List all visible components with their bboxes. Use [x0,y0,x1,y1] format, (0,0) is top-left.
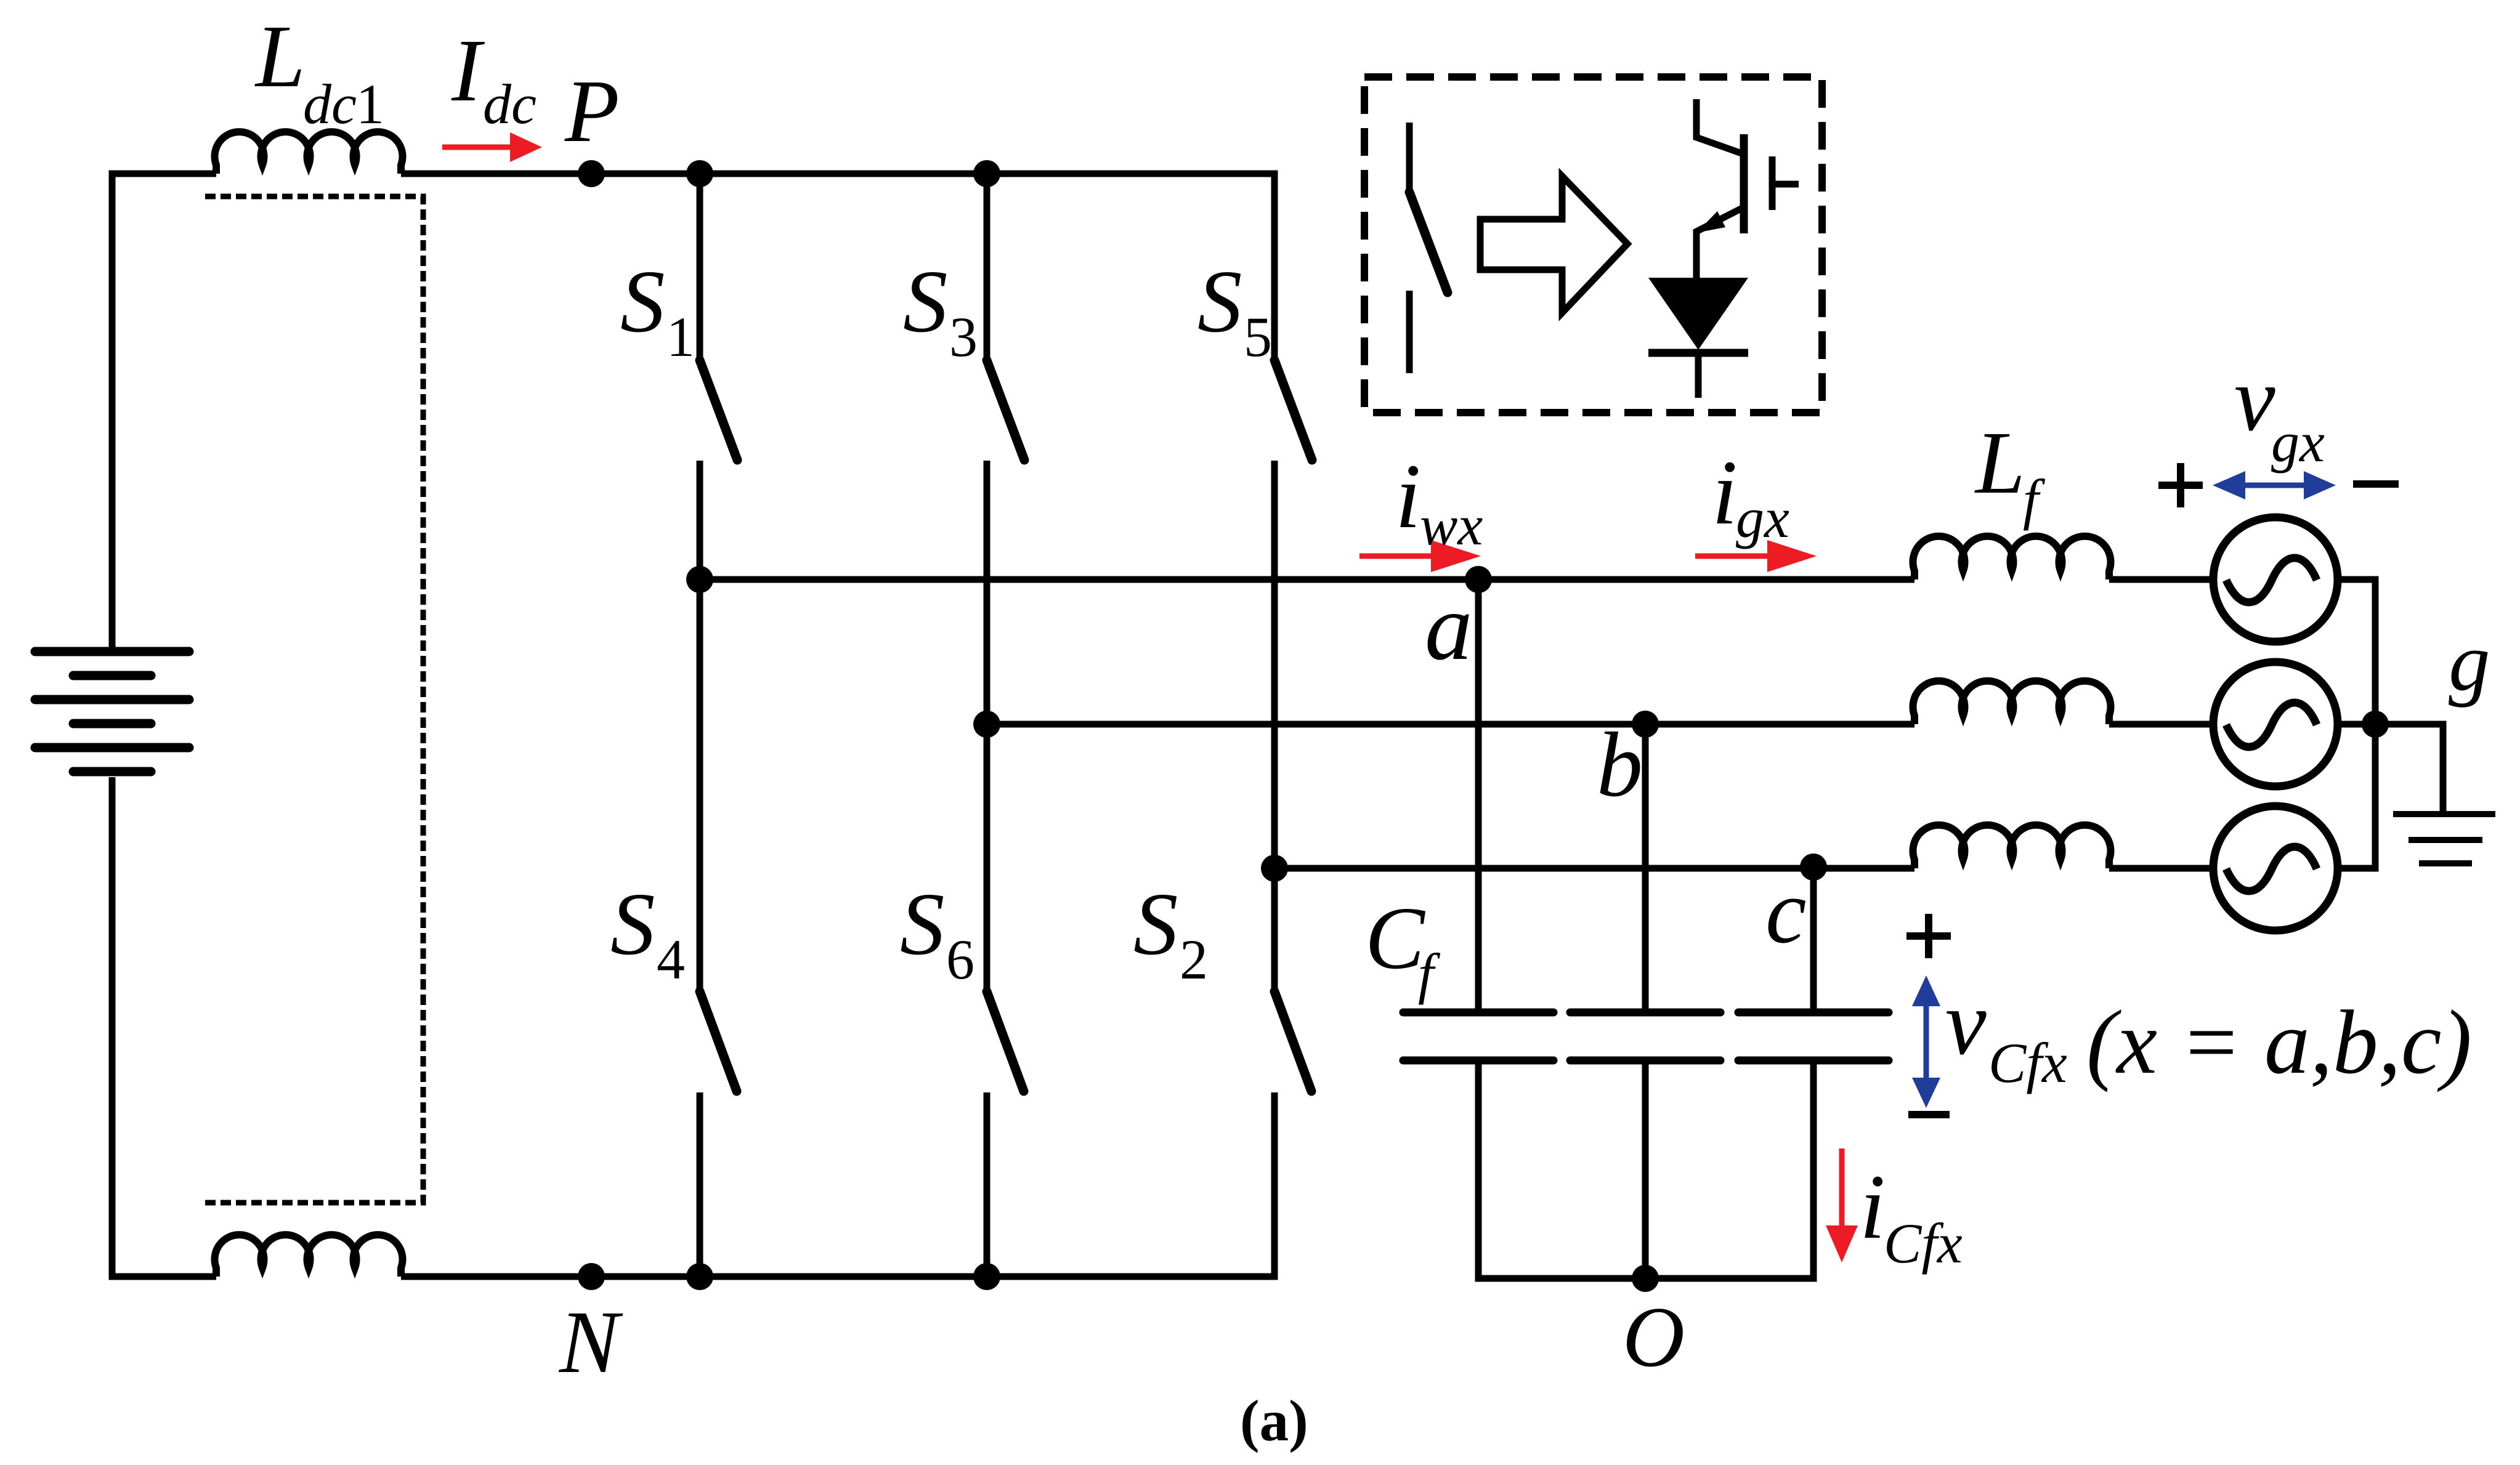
svg-text:S: S [1197,252,1242,351]
svg-text:gx: gx [2271,411,2325,474]
svg-text:Cfx: Cfx [1884,1212,1963,1275]
svg-text:3: 3 [949,305,978,368]
svg-text:c: c [1765,860,1807,963]
svg-text:C: C [1365,889,1426,988]
svg-text:S: S [620,252,665,351]
svg-text:dc: dc [483,73,537,135]
svg-text:S: S [903,252,948,351]
svg-text:L: L [254,7,306,106]
svg-text:1: 1 [666,305,695,368]
svg-text:wx: wx [1420,494,1483,557]
svg-text:N: N [558,1293,623,1392]
svg-text:Cfx: Cfx [1988,1031,2067,1094]
svg-text:b: b [1597,714,1643,816]
svg-text:2: 2 [1180,928,1208,991]
svg-text:S: S [900,875,945,974]
svg-text:O: O [1623,1289,1685,1385]
svg-text:(a): (a) [1240,1388,1308,1453]
svg-text:g: g [2449,616,2490,708]
svg-text:S: S [1133,875,1178,974]
svg-text:i: i [1860,1156,1886,1258]
svg-text:i: i [1712,442,1738,544]
svg-text:v: v [2234,348,2275,450]
svg-text:i: i [1395,445,1421,547]
svg-text:v: v [1945,972,1987,1074]
svg-text:(x = a,b,c): (x = a,b,c) [2086,992,2472,1093]
svg-text:L: L [1974,414,2025,512]
svg-text:5: 5 [1244,305,1272,368]
svg-text:4: 4 [657,928,685,991]
svg-text:P: P [564,62,620,161]
svg-text:S: S [610,875,655,974]
svg-text:dc: dc [303,73,357,135]
svg-text:a: a [1425,574,1473,680]
svg-text:6: 6 [946,928,974,991]
svg-text:I: I [451,22,485,120]
svg-text:1: 1 [356,73,384,135]
svg-text:gx: gx [1736,486,1789,549]
